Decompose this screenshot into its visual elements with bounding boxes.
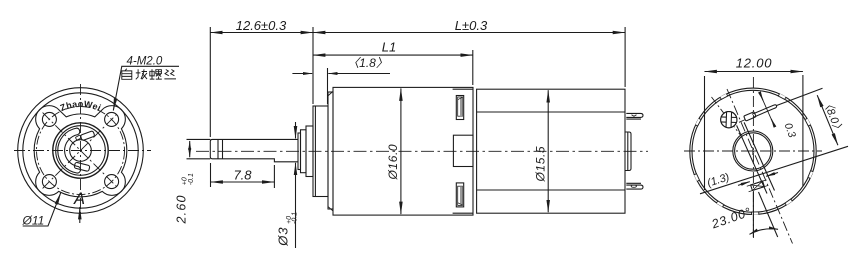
leader diameter 11	[23, 193, 61, 226]
dim 7.8 ext right	[273, 165, 275, 188]
outer circle	[18, 88, 144, 214]
svg-text:12.6±0.3: 12.6±0.3	[236, 18, 287, 33]
long line B	[700, 146, 848, 194]
svg-text:2.60: 2.60	[175, 194, 189, 224]
tab bottom-right	[74, 162, 90, 171]
centerline diagonal SW-NE	[43, 113, 119, 189]
inner rim circle	[692, 90, 814, 212]
terminal axis extension	[777, 88, 823, 105]
svg-text:0.3: 0.3	[782, 121, 798, 139]
svg-text:A: A	[73, 190, 85, 208]
pitch circle (bolt circle)	[37, 107, 125, 195]
dim 1.8 left arrow	[292, 73, 312, 75]
svg-text:L±0.3: L±0.3	[455, 18, 488, 33]
centerline vertical	[80, 84, 82, 218]
svg-text:Ø3: Ø3	[276, 226, 291, 246]
svg-text:(1.3): (1.3)	[706, 171, 732, 190]
angle ext line 23deg	[759, 192, 778, 237]
dim 1.3 arrows	[738, 182, 750, 186]
rim notches	[694, 94, 813, 215]
bearing ring 1	[298, 133, 301, 170]
parallel line P1	[737, 125, 767, 193]
centerline diagonal NW-SE	[43, 113, 119, 189]
center ring inner	[56, 126, 106, 176]
svg-text:L1: L1	[382, 40, 396, 55]
gearbox rear boss	[453, 135, 473, 166]
leader 4-M2.0	[113, 66, 179, 110]
dim 12.00 ext left	[704, 76, 706, 190]
centerline horizontal	[14, 150, 151, 152]
center ring outer	[53, 123, 108, 178]
can crimp line top	[477, 111, 625, 113]
terminal top	[626, 113, 643, 119]
dim 0.3 arrows	[762, 97, 773, 122]
screw hole NW	[42, 112, 56, 126]
terminal bottom notch	[631, 185, 636, 187]
dim line L	[313, 32, 625, 34]
centerline vertical	[752, 77, 754, 238]
svg-text:Ø11: Ø11	[22, 214, 45, 228]
can crimp tab top	[453, 88, 473, 90]
dim 12.00 ext right	[802, 75, 804, 186]
centerline 23deg diagonal	[727, 89, 793, 244]
dim 1.8 right arrow and tail	[328, 73, 390, 75]
screw centerline radial	[712, 97, 742, 137]
screw hole SW	[42, 175, 56, 189]
gearbox body	[333, 87, 473, 215]
dim 1.8 ext right	[327, 68, 329, 104]
bushing inner line	[627, 132, 629, 171]
terminal bottom	[626, 183, 643, 189]
shaft outline	[210, 139, 298, 161]
dim dia3 leader lower	[295, 163, 297, 248]
can crimp tab bottom	[453, 212, 473, 214]
angle ext line vertical	[752, 192, 754, 237]
dim line L1	[313, 54, 473, 56]
motor can	[477, 89, 625, 213]
svg-text:-0.1: -0.1	[292, 212, 299, 224]
can crimp line bottom	[477, 189, 625, 191]
svg-text:Ø16.0: Ø16.0	[386, 144, 400, 181]
spacer chamfers	[328, 92, 333, 211]
svg-text:7.8: 7.8	[233, 167, 252, 182]
view arrow A	[79, 207, 81, 223]
terminal top notch	[632, 115, 637, 117]
label zigong screws (hand-drawn CJK)	[122, 69, 176, 80]
hub circle	[70, 140, 92, 162]
dim 2.60 ext bottom	[187, 158, 211, 160]
ZhaoWei arc text path	[50, 107, 112, 120]
svg-text:Ø15.5: Ø15.5	[534, 146, 548, 183]
vent hole top	[456, 96, 463, 120]
rear bushing	[625, 132, 631, 171]
hub key bump	[75, 135, 81, 140]
dim line 2.60	[189, 141, 191, 157]
screw hole NE	[105, 112, 119, 126]
outer circle	[690, 88, 816, 214]
dim line 12.6	[210, 32, 313, 34]
dim 12.6 ext left	[209, 27, 211, 137]
terminal axis tail	[739, 120, 746, 123]
inner rim circle	[23, 93, 138, 208]
svg-text:-0.1: -0.1	[188, 173, 195, 185]
screw cross bar1	[720, 117, 739, 123]
shaft ring lines	[217, 139, 219, 158]
dim dia3 leader upper	[295, 122, 297, 138]
centerline horizontal	[684, 150, 822, 152]
terminal tab tip box	[744, 112, 756, 121]
center hole outer	[733, 131, 773, 171]
terminal tab arms	[752, 105, 777, 117]
dim 2.60 ext top	[187, 138, 211, 140]
angle dim arc	[750, 229, 779, 235]
front mounting plate	[313, 106, 328, 197]
dim line 12.00	[705, 71, 803, 73]
svg-text:〈1.8〉: 〈1.8〉	[347, 56, 388, 70]
vent hole bottom	[456, 183, 463, 207]
dim 12.6/L ext mid	[312, 27, 314, 104]
spacer ring	[328, 92, 333, 209]
dim L1 ext right	[472, 50, 474, 85]
bottom terminal rect with X	[747, 180, 768, 192]
faceplate contour with 4 lobes and top banner	[34, 106, 127, 197]
tab top-right	[80, 131, 95, 141]
svg-text:〈8.0〉: 〈8.0〉	[820, 96, 846, 135]
bearing ring 2	[301, 130, 307, 173]
screw cross bar2	[726, 110, 732, 129]
bearing ring 3	[306, 126, 313, 177]
center hole inner	[735, 133, 771, 169]
dim line dia15.5	[547, 90, 549, 212]
axis centerline	[196, 150, 648, 152]
svg-text:4-M2.0: 4-M2.0	[127, 56, 163, 68]
dim line dia16	[400, 88, 402, 214]
screw circle	[721, 112, 737, 128]
center cross	[749, 147, 757, 155]
dim line 7.8	[211, 181, 275, 183]
screw hole SE	[105, 175, 119, 189]
dim line 8.0	[817, 95, 838, 145]
parallel line P2	[744, 122, 774, 190]
svg-text:12.00: 12.00	[736, 56, 773, 71]
dim 7.8 ext left	[210, 163, 212, 187]
dim L ext right	[624, 27, 626, 87]
crescent C-shape	[58, 128, 81, 173]
